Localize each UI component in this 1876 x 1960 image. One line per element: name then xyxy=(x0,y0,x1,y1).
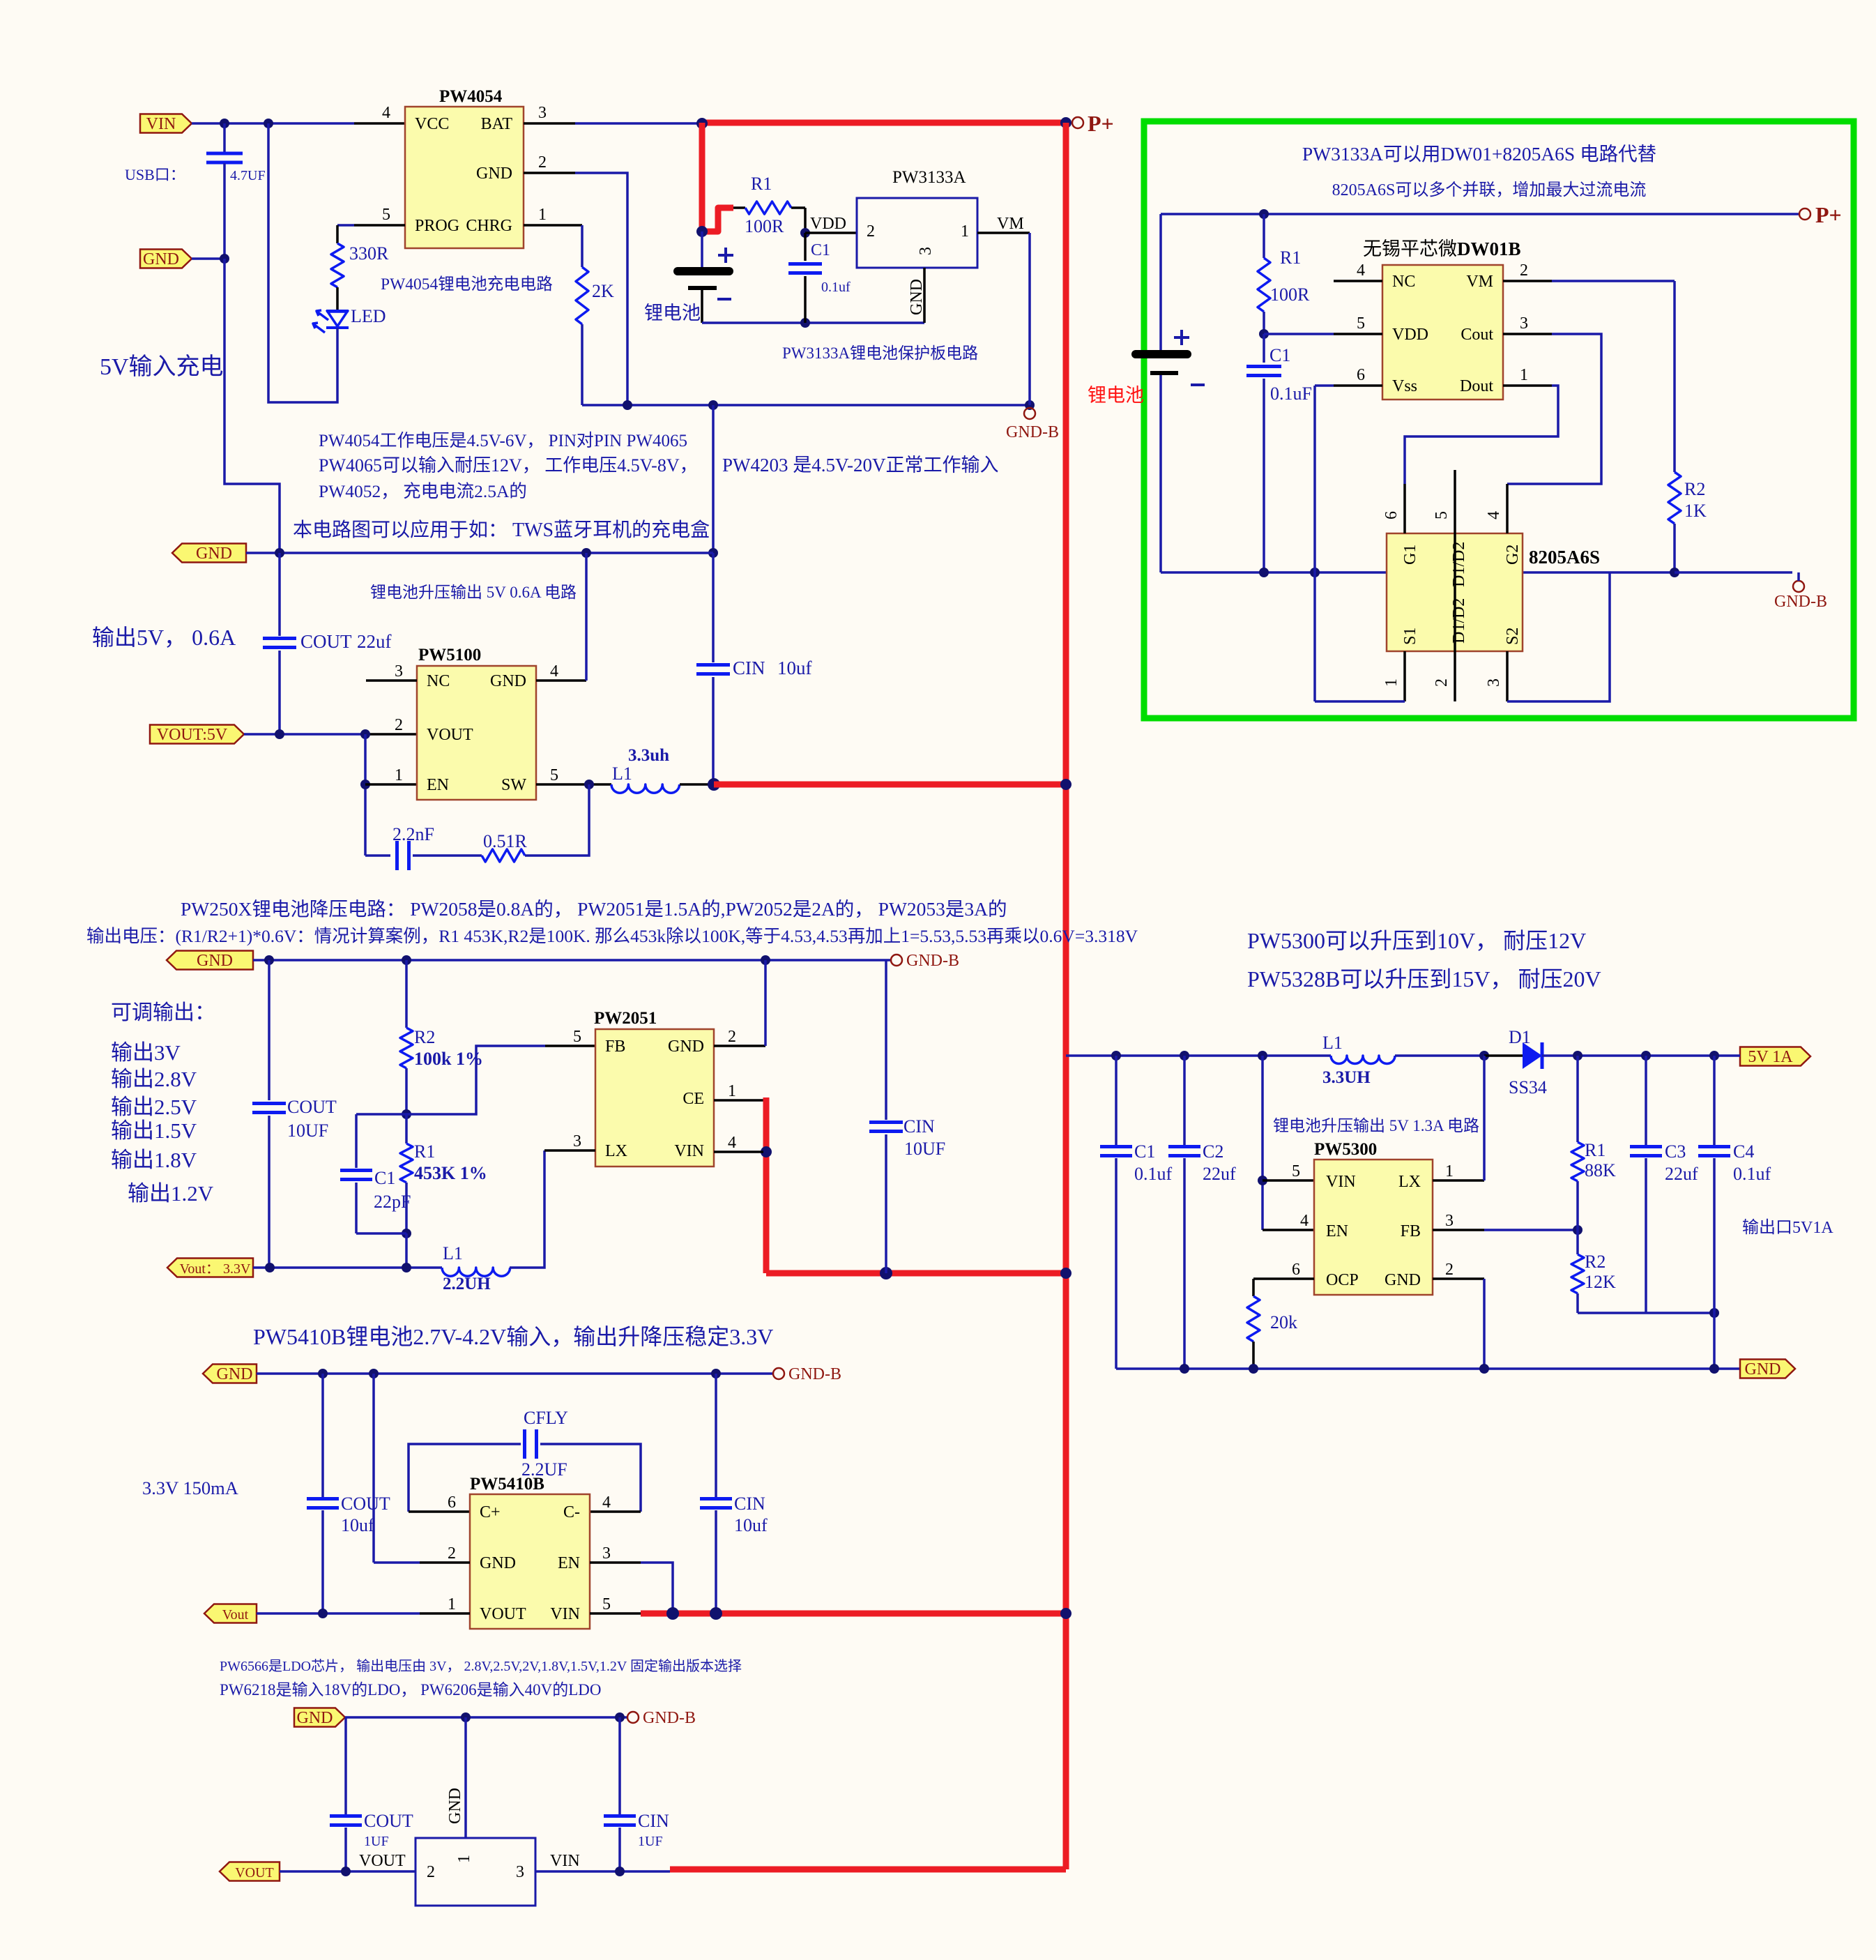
svg-text:GND-B: GND-B xyxy=(1774,593,1827,611)
net label GND (5100) xyxy=(172,544,246,563)
svg-text:4: 4 xyxy=(1485,511,1503,519)
svg-text:4: 4 xyxy=(1357,261,1365,280)
svg-text:BAT: BAT xyxy=(481,115,513,133)
wire Vss down xyxy=(1313,386,1316,572)
svg-text:GND: GND xyxy=(143,250,179,268)
wire Vout (5410) xyxy=(257,1612,420,1615)
svg-text:5: 5 xyxy=(1357,314,1365,333)
resistor R2 100k xyxy=(405,960,408,1028)
junction VIN/PROG loop xyxy=(264,119,273,128)
net label VIN xyxy=(140,114,192,133)
wire S1 to rail xyxy=(1315,700,1405,703)
junction Vout COUT (5410) xyxy=(318,1609,328,1618)
wire S2 loop xyxy=(1507,572,1610,701)
pin 6 stub C+ xyxy=(409,1510,470,1513)
svg-text:GND-B: GND-B xyxy=(788,1365,841,1383)
capacitor COUT 10uf (5410) xyxy=(321,1374,324,1497)
svg-text:3: 3 xyxy=(917,247,935,255)
capacitor CIN 10uf (5410) xyxy=(715,1374,717,1497)
svg-text:输出口5V1A: 输出口5V1A xyxy=(1742,1218,1833,1237)
power wire red 5410 VIN xyxy=(641,1611,1066,1617)
svg-text:3: 3 xyxy=(1520,314,1528,333)
junction SW/red xyxy=(708,778,720,791)
svg-text:22pF: 22pF xyxy=(374,1192,411,1212)
svg-text:0.1uf: 0.1uf xyxy=(1733,1164,1771,1184)
svg-text:GND: GND xyxy=(480,1554,516,1572)
svg-text:Cout: Cout xyxy=(1461,326,1493,344)
svg-text:CHRG: CHRG xyxy=(466,217,512,235)
svg-text:1: 1 xyxy=(1382,678,1401,687)
terminal GND-B (5410) xyxy=(773,1368,784,1379)
IC U2 PW3133A xyxy=(857,198,977,268)
svg-text:GND: GND xyxy=(476,165,512,183)
svg-text:PW4054: PW4054 xyxy=(439,87,503,106)
capacitor 4.7UF xyxy=(223,123,226,153)
svg-text:10uf: 10uf xyxy=(734,1515,768,1535)
power wire red jog to R1 xyxy=(702,208,733,231)
svg-text:1: 1 xyxy=(455,1855,473,1863)
svg-text:C1: C1 xyxy=(811,241,830,259)
svg-text:输出1.5V: 输出1.5V xyxy=(111,1118,197,1143)
junction VOUT COUT (ldo) xyxy=(341,1867,351,1876)
svg-text:R2: R2 xyxy=(1684,479,1705,499)
net label 5V 1A xyxy=(1740,1047,1810,1066)
wire 2K to gnd rail xyxy=(581,324,584,405)
pin 2 wire GND (2051) xyxy=(714,1044,765,1047)
svg-text:2: 2 xyxy=(448,1544,456,1563)
svg-text:S1: S1 xyxy=(1401,628,1419,645)
svg-text:6: 6 xyxy=(1292,1261,1300,1279)
junction EN xyxy=(360,780,370,789)
svg-text:0.1uF: 0.1uF xyxy=(1270,383,1312,404)
svg-text:PW4052， 充电电流2.5A的: PW4052， 充电电流2.5A的 xyxy=(319,481,527,501)
svg-text:6: 6 xyxy=(1357,366,1365,384)
junction FB divider xyxy=(402,1109,411,1119)
pin 2 wire VDD xyxy=(805,231,857,234)
junction VDD (green) xyxy=(1259,329,1269,339)
svg-text:0.51R: 0.51R xyxy=(483,831,528,851)
wire R1 to VDD xyxy=(804,208,807,233)
svg-text:COUT: COUT xyxy=(300,631,352,652)
capacitor CIN 10uf (5100) xyxy=(712,661,715,664)
svg-text:D1/D2: D1/D2 xyxy=(1450,598,1468,644)
svg-text:C+: C+ xyxy=(480,1503,501,1521)
power wire red 5100 output xyxy=(714,782,1066,788)
wire gnd down to rail xyxy=(224,259,280,553)
svg-text:VIN: VIN xyxy=(1326,1173,1356,1191)
power wire red main vertical xyxy=(1063,123,1069,1869)
svg-text:FB: FB xyxy=(605,1038,625,1056)
IC U8 PW5410B xyxy=(470,1494,590,1629)
svg-text:GND: GND xyxy=(1385,1271,1421,1289)
power wire red battery drop xyxy=(699,123,706,231)
svg-text:2: 2 xyxy=(1520,261,1528,280)
svg-text:VDD: VDD xyxy=(810,215,846,233)
junction rail COUT (5410) xyxy=(318,1369,328,1378)
svg-text:1: 1 xyxy=(448,1595,456,1613)
svg-text:VIN: VIN xyxy=(674,1142,704,1160)
svg-text:SS34: SS34 xyxy=(1509,1077,1547,1097)
svg-text:CIN: CIN xyxy=(734,1494,765,1514)
wire D1 to output xyxy=(1542,1054,1735,1057)
svg-text:453K 1%: 453K 1% xyxy=(414,1163,487,1183)
pin 4 wire GND (5100) xyxy=(536,679,586,682)
svg-text:2: 2 xyxy=(538,153,547,172)
wire EN branch xyxy=(364,734,367,856)
junction red main (2314) xyxy=(1060,1608,1072,1619)
svg-text:22uf: 22uf xyxy=(1665,1164,1698,1184)
svg-text:3: 3 xyxy=(602,1544,611,1563)
junction rail CIN (5410) xyxy=(711,1369,721,1378)
wire CIN branch vertical xyxy=(712,405,715,553)
junction gnd rail/CIN branch xyxy=(708,400,718,410)
svg-text:GND-B: GND-B xyxy=(643,1709,696,1727)
wire PROG to 330R xyxy=(337,224,354,227)
svg-text:3: 3 xyxy=(573,1132,581,1150)
junction Vss bottom (green) xyxy=(1310,568,1320,577)
terminal P+ (green) xyxy=(1799,208,1810,220)
svg-text:5V 1A: 5V 1A xyxy=(1748,1048,1793,1066)
green highlight box xyxy=(1144,121,1854,718)
svg-text:VCC: VCC xyxy=(415,115,449,133)
svg-text:PW4054工作电压是4.5V-6V， PIN对PIN P: PW4054工作电压是4.5V-6V， PIN对PIN PW4065 xyxy=(319,431,687,450)
svg-text:6: 6 xyxy=(1382,511,1401,519)
junction VIN/C-4.7UF xyxy=(220,119,229,128)
svg-text:VIN: VIN xyxy=(550,1852,580,1870)
svg-text:1: 1 xyxy=(728,1082,736,1100)
svg-text:100R: 100R xyxy=(745,216,784,236)
junction GND/cap xyxy=(220,254,229,264)
svg-text:输出电压：(R1/R2+1)*0.6V：情况计算案例，R1: 输出电压：(R1/R2+1)*0.6V：情况计算案例，R1 453K,R2是10… xyxy=(86,926,1138,946)
pin 3 stub LX xyxy=(544,1149,595,1152)
svg-text:3: 3 xyxy=(538,104,547,122)
svg-text:3: 3 xyxy=(395,662,403,681)
junction C2 top xyxy=(1180,1051,1189,1061)
svg-text:8205A6S: 8205A6S xyxy=(1529,547,1600,568)
gnd rail y793 xyxy=(246,552,713,554)
svg-text:COUT: COUT xyxy=(287,1097,337,1117)
svg-text:PW3133A锂电池保护板电路: PW3133A锂电池保护板电路 xyxy=(782,344,978,362)
gnd rail y1377 xyxy=(253,959,890,962)
svg-text:PW3133A可以用DW01+8205A6S 电路代替: PW3133A可以用DW01+8205A6S 电路代替 xyxy=(1302,143,1656,165)
svg-text:88K: 88K xyxy=(1585,1160,1616,1180)
svg-text:1UF: 1UF xyxy=(364,1834,389,1849)
svg-text:L1: L1 xyxy=(1322,1033,1343,1053)
svg-text:GND: GND xyxy=(668,1038,704,1056)
junction rail/gndpin (2051) xyxy=(761,955,770,965)
svg-text:C1: C1 xyxy=(1269,345,1290,365)
pin 3 wire GND (3133) xyxy=(923,268,926,323)
resistor R1 100R (green) xyxy=(1263,214,1265,258)
junction rail gnd2 (5410) xyxy=(369,1369,379,1378)
svg-text:VIN: VIN xyxy=(550,1605,580,1623)
svg-text:10uf: 10uf xyxy=(341,1515,374,1535)
junction red CIN (5410) xyxy=(710,1607,722,1620)
battery B2 wire xyxy=(1159,214,1162,350)
svg-text:12K: 12K xyxy=(1585,1272,1616,1292)
svg-text:PW4054锂电池充电电路: PW4054锂电池充电电路 xyxy=(381,275,553,294)
capacitor C2 22uf (5300) xyxy=(1183,1056,1186,1146)
svg-text:GND: GND xyxy=(197,952,233,970)
junction rail CIN (ldo) xyxy=(615,1712,625,1722)
junction SW/loop xyxy=(584,780,594,789)
svg-text:GND: GND xyxy=(297,1709,333,1727)
resistor 0.51R xyxy=(482,849,525,862)
svg-text:2: 2 xyxy=(427,1863,435,1881)
wire VOUT to pin xyxy=(244,733,369,736)
battery B2 minus plate xyxy=(1150,371,1178,375)
junction red/CIN (2051) xyxy=(880,1267,892,1279)
junction rail/gnd4 xyxy=(581,548,591,558)
pin 4 stub VCC xyxy=(354,122,405,125)
svg-text:COUT: COUT xyxy=(364,1811,413,1831)
terminal GND-B (2051) xyxy=(891,955,902,966)
junction green R1 top xyxy=(1259,209,1269,219)
svg-text:锂电池升压输出 5V 1.3A 电路: 锂电池升压输出 5V 1.3A 电路 xyxy=(1273,1117,1479,1134)
svg-text:1UF: 1UF xyxy=(638,1834,663,1849)
svg-text:PW3133A: PW3133A xyxy=(892,168,966,187)
svg-text:PW5100: PW5100 xyxy=(418,646,481,664)
pin 6 wire OCP xyxy=(1253,1277,1314,1280)
wire FB to divider xyxy=(406,1046,545,1114)
svg-text:2: 2 xyxy=(867,222,875,241)
net label GND (2051) xyxy=(167,951,253,970)
svg-text:R2: R2 xyxy=(1585,1252,1606,1272)
svg-text:VOUT: VOUT xyxy=(235,1865,274,1881)
capacitor C1 0.1uf (5300) xyxy=(1115,1056,1118,1146)
terminal GND-B (green) xyxy=(1793,581,1804,592)
svg-text:5: 5 xyxy=(1292,1162,1300,1180)
battery B1 plus sign xyxy=(718,248,733,263)
gnd rail y1970 xyxy=(257,1372,772,1375)
junction red main/5100 xyxy=(1060,779,1072,790)
svg-text:NC: NC xyxy=(427,672,450,690)
svg-text:EN: EN xyxy=(1326,1222,1348,1240)
svg-text:无锡平芯微: 无锡平芯微 xyxy=(1363,238,1457,259)
pin 2 stub GND xyxy=(524,172,575,174)
svg-text:C3: C3 xyxy=(1665,1141,1686,1162)
svg-text:3.3UH: 3.3UH xyxy=(1322,1068,1371,1087)
capacitor C1 0.1uf (3133) xyxy=(804,233,807,261)
svg-text:L1: L1 xyxy=(443,1243,463,1263)
svg-text:PW6218是输入18V的LDO， PW6206是输入40V: PW6218是输入18V的LDO， PW6206是输入40V的LDO xyxy=(220,1681,602,1699)
pin 3 stub NC xyxy=(366,679,417,682)
net label Vout 3.3V xyxy=(167,1259,253,1277)
svg-text:LX: LX xyxy=(1398,1173,1421,1191)
svg-text:EN: EN xyxy=(427,776,449,794)
inductor L1 3.3UH (5300) xyxy=(1331,1056,1395,1064)
wire green top rail xyxy=(1161,213,1799,215)
junction VIN CIN (ldo) xyxy=(615,1867,625,1876)
snubber loop wire xyxy=(365,854,390,857)
svg-text:G1: G1 xyxy=(1401,545,1419,565)
svg-text:4: 4 xyxy=(728,1134,736,1152)
junction C3 top xyxy=(1641,1051,1651,1061)
junction FB divider (5300) xyxy=(1573,1225,1583,1235)
svg-text:5V输入充电: 5V输入充电 xyxy=(100,354,224,380)
net label VOUT (ldo) xyxy=(220,1862,280,1881)
svg-text:VM: VM xyxy=(997,215,1024,233)
terminal GND-B (top) xyxy=(1024,408,1035,419)
svg-text:2: 2 xyxy=(1445,1261,1454,1279)
pin 1 wire VM xyxy=(977,231,1030,234)
battery B1 minus plate xyxy=(688,286,717,290)
terminal GND-B (ldo) xyxy=(627,1712,639,1723)
junction red EN (5410) xyxy=(666,1607,679,1620)
power wire red CE xyxy=(763,1097,770,1273)
svg-text:PW5410B: PW5410B xyxy=(470,1475,544,1494)
svg-text:C2: C2 xyxy=(1203,1141,1223,1162)
svg-text:Vss: Vss xyxy=(1392,377,1417,395)
svg-text:SW: SW xyxy=(501,776,526,794)
junction C1 top xyxy=(1111,1051,1121,1061)
svg-text:D1/D2: D1/D2 xyxy=(1450,542,1468,587)
wire VIN branch xyxy=(1261,1056,1264,1230)
net label GND (ldo) xyxy=(294,1708,345,1727)
IC U9 LDO xyxy=(415,1838,535,1906)
pin 1 stub EN (5100) xyxy=(365,783,417,786)
svg-text:GND: GND xyxy=(1745,1360,1781,1378)
wire LX junction to D1 xyxy=(1484,1054,1523,1057)
net label GND (5300) xyxy=(1740,1360,1795,1378)
IC U6 PW2051 xyxy=(595,1029,714,1167)
battery B1 minus sign xyxy=(717,298,731,301)
svg-text:10UF: 10UF xyxy=(904,1139,945,1159)
IC U5 PW5100 xyxy=(417,666,536,800)
pin 3 wire Cout xyxy=(1503,333,1552,335)
junction vout/COUT xyxy=(265,1263,275,1273)
junction rail gnd (ldo) xyxy=(461,1712,471,1722)
svg-text:1: 1 xyxy=(538,206,547,224)
svg-text:GND-B: GND-B xyxy=(1006,423,1059,441)
battery B2 plus sign xyxy=(1174,330,1189,345)
pin stub G1 xyxy=(1403,484,1406,533)
pin 3 wire EN (5410) xyxy=(590,1561,641,1564)
svg-text:VDD: VDD xyxy=(1392,326,1428,344)
junction rail 20k xyxy=(1249,1364,1258,1374)
svg-text:1: 1 xyxy=(961,222,969,241)
capacitor C3 22uf xyxy=(1645,1056,1647,1146)
junction LX top xyxy=(1479,1051,1489,1061)
wire green bottom rail xyxy=(1161,571,1675,574)
pin stub G2 xyxy=(1506,484,1509,533)
svg-text:GND: GND xyxy=(446,1788,464,1824)
svg-text:1: 1 xyxy=(1520,366,1528,384)
svg-text:VOUT:5V: VOUT:5V xyxy=(157,726,228,744)
svg-text:Vout： 3.3V: Vout： 3.3V xyxy=(180,1261,251,1277)
junction C1 bottom (green) xyxy=(1259,568,1269,577)
svg-text:22uf: 22uf xyxy=(1203,1164,1236,1184)
junction R1 top (5300) xyxy=(1573,1051,1583,1061)
svg-text:2.2nF: 2.2nF xyxy=(392,824,434,844)
junction VIN pin (5300) xyxy=(1258,1176,1267,1185)
input rail (5300) xyxy=(1066,1054,1331,1057)
svg-text:5: 5 xyxy=(1433,511,1451,519)
svg-text:P+: P+ xyxy=(1088,111,1114,136)
svg-text:EN: EN xyxy=(558,1554,580,1572)
IC U4 8205A6S xyxy=(1387,533,1523,651)
net label Vout (5410) xyxy=(204,1604,257,1623)
svg-text:USB口：: USB口： xyxy=(125,166,185,183)
battery B2 minus sign xyxy=(1191,383,1205,386)
svg-text:22uf: 22uf xyxy=(357,631,392,652)
svg-text:R2: R2 xyxy=(414,1027,435,1047)
wire battery B2 to rail xyxy=(1159,375,1162,572)
junction VOUT/COUT xyxy=(275,729,284,739)
wire L1 to LX junction xyxy=(1395,1054,1484,1057)
junction rail/R2 xyxy=(402,955,411,965)
svg-text:PW2051: PW2051 xyxy=(594,1009,657,1028)
svg-text:C1: C1 xyxy=(374,1168,395,1188)
svg-text:NC: NC xyxy=(1392,273,1415,291)
wire R2 bottom xyxy=(1578,1312,1714,1314)
wire to 5V1A label xyxy=(1735,1054,1740,1057)
svg-text:CIN: CIN xyxy=(903,1116,935,1137)
pin 2 wire VM xyxy=(1503,280,1552,282)
junction battery+ xyxy=(696,226,708,237)
pin 4 stub C- xyxy=(590,1510,641,1513)
gnd rail y2463 xyxy=(345,1716,627,1719)
svg-text:OCP: OCP xyxy=(1326,1271,1359,1289)
wire VM down to R2 xyxy=(1673,281,1676,472)
svg-text:VM: VM xyxy=(1466,273,1493,291)
net label GND (5410) xyxy=(203,1365,257,1383)
pin 1 stub CHRG xyxy=(524,224,582,227)
junction gnd rail/4054gnd xyxy=(623,400,632,410)
junction CIN/gnd793 xyxy=(708,548,718,558)
svg-text:PW5328B可以升压到15V， 耐压20V: PW5328B可以升压到15V， 耐压20V xyxy=(1247,966,1601,992)
svg-text:PW5300: PW5300 xyxy=(1314,1140,1377,1159)
svg-text:8205A6S可以多个并联，增加最大过流电流: 8205A6S可以多个并联，增加最大过流电流 xyxy=(1332,181,1647,199)
svg-text:CIN: CIN xyxy=(638,1811,669,1831)
resistor R2 1K (green) xyxy=(1668,472,1681,524)
svg-text:可调输出：: 可调输出： xyxy=(111,1001,215,1024)
svg-text:C-: C- xyxy=(563,1503,580,1521)
svg-text:DW01B: DW01B xyxy=(1457,238,1521,259)
svg-text:20k: 20k xyxy=(1270,1312,1297,1332)
svg-text:锂电池: 锂电池 xyxy=(644,303,701,324)
pin 5 stub VIN (5300) xyxy=(1263,1179,1314,1182)
wire VIN (ldo) xyxy=(535,1870,670,1873)
capacitor COUT 1UF (ldo) xyxy=(344,1717,347,1814)
svg-text:4: 4 xyxy=(1300,1212,1309,1230)
svg-text:0.1uf: 0.1uf xyxy=(821,280,851,295)
pin 4 stub VIN (2051) xyxy=(714,1150,763,1153)
svg-text:4: 4 xyxy=(382,104,390,122)
junction red/main (1826) xyxy=(1060,1268,1072,1279)
svg-text:4: 4 xyxy=(550,662,558,681)
svg-text:100k 1%: 100k 1% xyxy=(414,1049,483,1069)
pin line D1/D2 center xyxy=(1454,470,1456,701)
wire BAT to battery junction xyxy=(575,122,699,125)
svg-text:4: 4 xyxy=(602,1494,611,1512)
svg-text:Vout: Vout xyxy=(222,1607,249,1623)
svg-text:锂电池: 锂电池 xyxy=(1088,385,1144,406)
svg-text:LX: LX xyxy=(605,1142,627,1160)
svg-text:C4: C4 xyxy=(1733,1141,1754,1162)
junction rail C4 xyxy=(1709,1364,1719,1374)
svg-text:PW5300可以升压到10V， 耐压12V: PW5300可以升压到10V， 耐压12V xyxy=(1247,928,1586,953)
svg-text:输出1.8V: 输出1.8V xyxy=(111,1148,197,1172)
svg-text:PW5410B锂电池2.7V-4.2V输入，输出升降压稳定3: PW5410B锂电池2.7V-4.2V输入，输出升降压稳定3.3V xyxy=(253,1324,773,1349)
svg-text:锂电池升压输出 5V 0.6A 电路: 锂电池升压输出 5V 0.6A 电路 xyxy=(370,584,577,601)
capacitor C4 0.1uf xyxy=(1713,1056,1716,1146)
svg-text:GND: GND xyxy=(217,1365,253,1383)
junction vout/R1 xyxy=(402,1263,411,1273)
junction VOUT/EN xyxy=(360,729,370,739)
svg-text:3: 3 xyxy=(516,1863,524,1881)
junction rail gnd2 xyxy=(1479,1364,1489,1374)
